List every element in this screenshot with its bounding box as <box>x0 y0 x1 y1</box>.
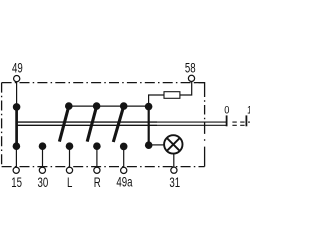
svg-text:30: 30 <box>38 174 49 190</box>
svg-text:31: 31 <box>169 174 180 190</box>
svg-text:49: 49 <box>12 60 23 76</box>
svg-text:L: L <box>67 174 73 190</box>
svg-text:58: 58 <box>185 60 196 76</box>
svg-text:0: 0 <box>224 105 229 117</box>
svg-text:R: R <box>94 174 101 190</box>
svg-text:15: 15 <box>11 174 22 190</box>
svg-text:49a: 49a <box>116 174 132 190</box>
svg-text:1: 1 <box>247 105 250 117</box>
